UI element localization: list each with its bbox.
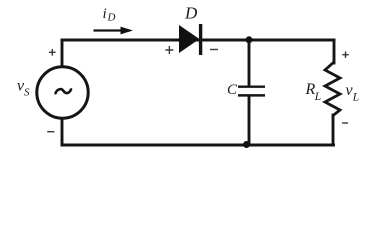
svg-text:L: L: [314, 91, 321, 103]
svg-text:D: D: [184, 4, 198, 23]
svg-text:D: D: [107, 12, 116, 24]
svg-text:C: C: [227, 82, 238, 98]
svg-text:S: S: [24, 86, 30, 98]
svg-text:i: i: [103, 6, 107, 22]
svg-text:L: L: [352, 91, 359, 103]
